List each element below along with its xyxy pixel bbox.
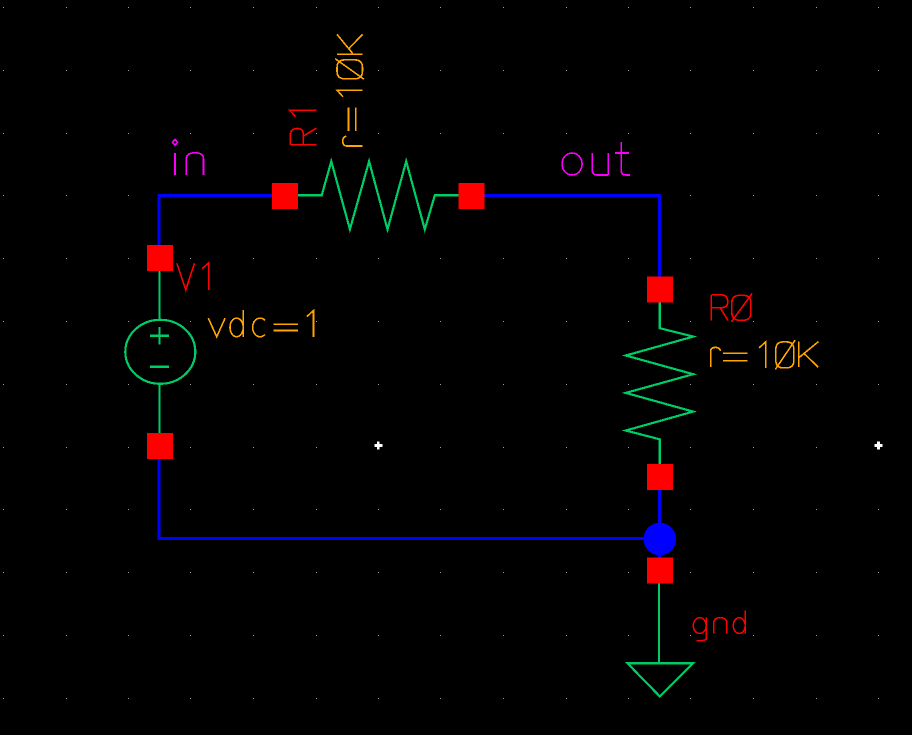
vdc source V1 symbol: circle body	[125, 320, 195, 384]
resistor R0 body zigzag	[626, 290, 693, 477]
wire net "in": left vertical from corner to V1 plus pin	[158, 194, 161, 246]
pin R0 bottom (MINUS)	[647, 464, 673, 490]
vdc source V1 symbol: top lead	[158, 258, 160, 320]
wire net "gnd!": vertical from V1 minus pin down to bottom corner	[158, 446, 161, 540]
ground net label gnd	[693, 610, 745, 640]
wire net "out": right vertical from corner down to R0 top pin	[658, 194, 661, 290]
origin marker cross left	[374, 442, 382, 450]
wire net "gnd!": bottom horizontal from left corner to junction	[158, 537, 660, 540]
junction solder dot at out/gnd wire tee	[644, 523, 677, 556]
instance label V1	[177, 263, 209, 290]
net label "out"	[562, 142, 630, 175]
vdc source V1 symbol: minus sign	[150, 366, 169, 368]
parameter label r=10K (rotated)	[335, 34, 364, 146]
pin V1 minus	[147, 433, 173, 459]
pin gnd symbol pin	[647, 558, 673, 584]
wire net "in": top horizontal from corner to R1 left pin	[158, 194, 286, 197]
vdc source V1 symbol: bottom lead	[158, 384, 160, 446]
pin R1 left (PLUS)	[272, 183, 298, 209]
origin marker cross right	[875, 442, 883, 450]
instance label R0	[711, 294, 752, 322]
wire net "out": horizontal from R1 right pin to right corner	[472, 194, 659, 197]
pin R1 right (MINUS)	[459, 183, 485, 209]
pin R0 top (PLUS)	[647, 277, 673, 303]
instance label R1 (rotated)	[290, 110, 317, 145]
resistor R1 body zigzag	[298, 161, 459, 229]
net label "in"	[173, 139, 204, 175]
parameter label vdc=1	[208, 310, 313, 337]
vdc source V1 symbol: plus sign	[150, 327, 169, 345]
ground symbol triangle	[628, 663, 694, 696]
parameter label r=10K	[711, 340, 819, 369]
wire net "gnd!": vertical from R0 bottom pin through junction to gnd pin	[658, 477, 661, 559]
pin V1 plus	[147, 245, 173, 271]
ground symbol lead	[658, 571, 660, 663]
